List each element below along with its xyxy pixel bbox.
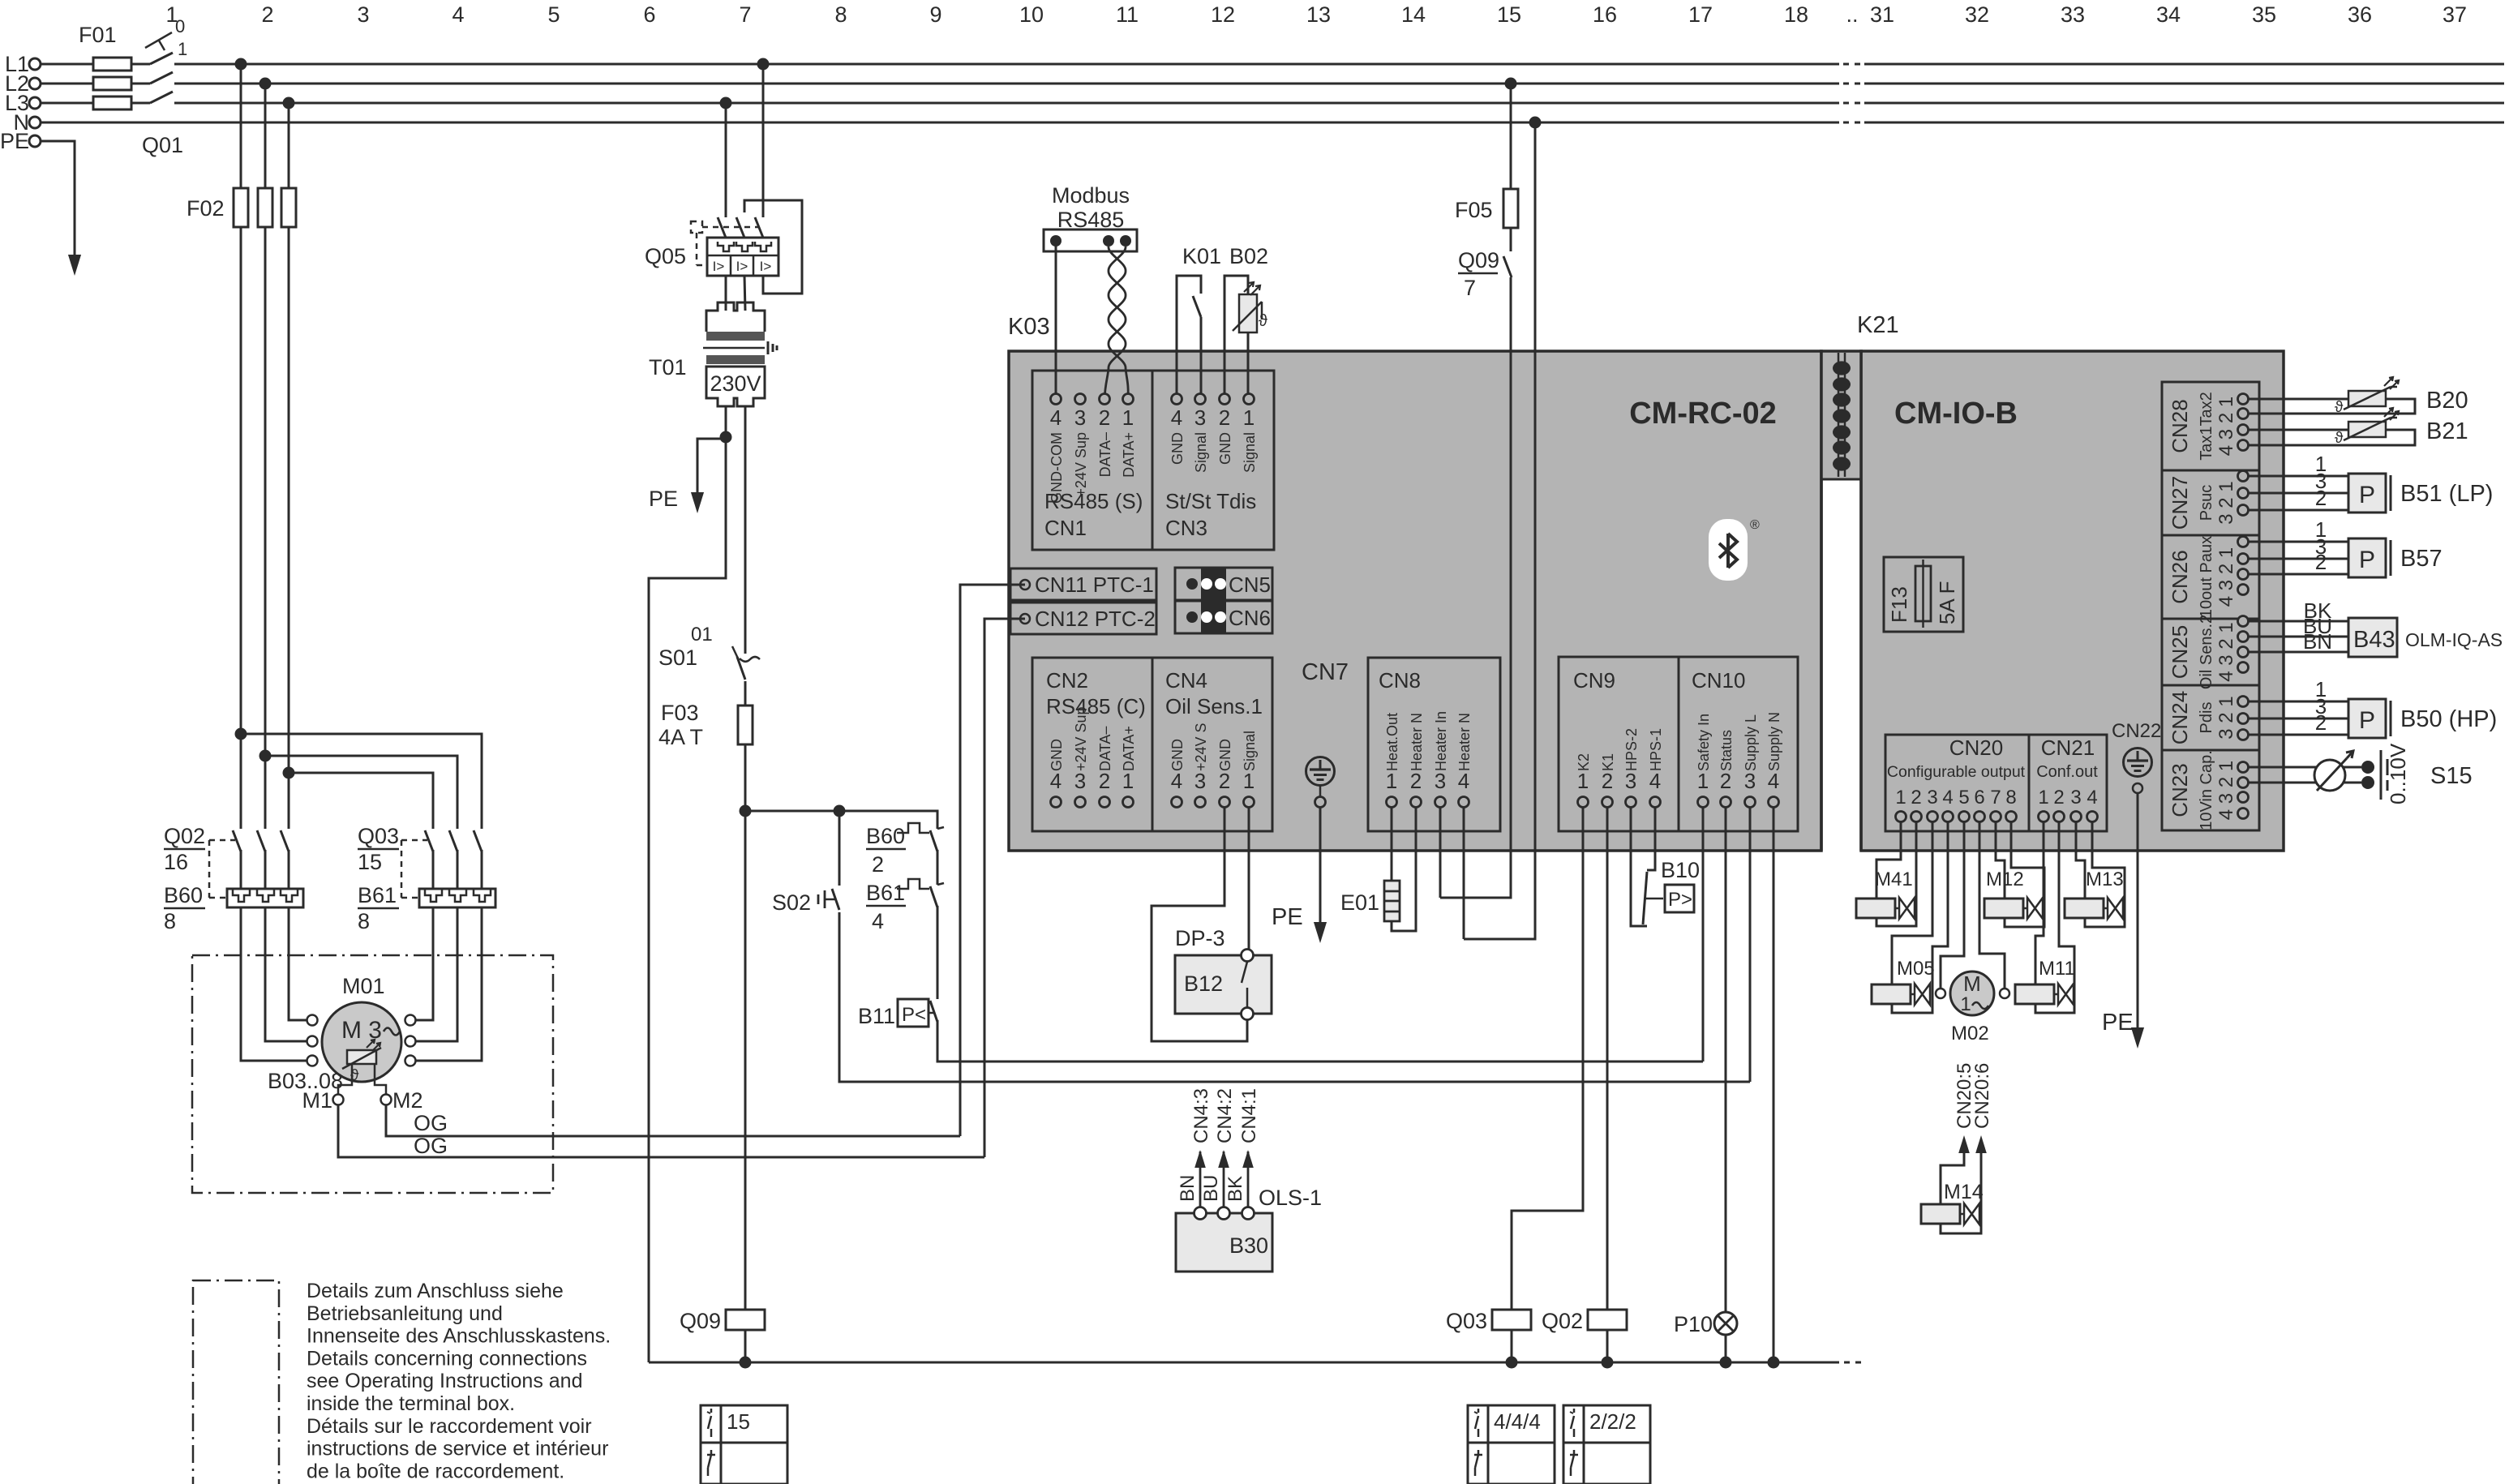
svg-text:Psuc: Psuc <box>2198 485 2215 521</box>
svg-text:3: 3 <box>2070 787 2081 808</box>
svg-text:CN28: CN28 <box>2168 399 2192 452</box>
svg-text:B51 (LP): B51 (LP) <box>2400 481 2493 507</box>
svg-text:CN4:3: CN4:3 <box>1190 1088 1212 1143</box>
svg-text:B30: B30 <box>1229 1233 1268 1258</box>
overload relay B60 body <box>227 889 303 907</box>
svg-text:7: 7 <box>739 2 751 27</box>
svg-text:St/St Tdis: St/St Tdis <box>1165 489 1256 513</box>
svg-text:ϑ: ϑ <box>1259 312 1267 330</box>
svg-text:F05: F05 <box>1455 198 1493 222</box>
breaker Q05 body <box>707 238 778 276</box>
svg-text:F02: F02 <box>187 196 225 221</box>
svg-text:M02: M02 <box>1951 1023 1989 1044</box>
junction L3 to F02 <box>283 97 295 109</box>
svg-text:Status: Status <box>1718 730 1735 771</box>
breaker Q05 I> cells <box>730 255 732 276</box>
connector CN27 box <box>2162 470 2259 472</box>
svg-text:Supply L: Supply L <box>1743 714 1759 771</box>
junction L3 to Q05 <box>720 97 732 109</box>
wire bottom supply rail <box>649 1362 1839 1364</box>
svg-text:2: 2 <box>261 2 273 27</box>
wire PE branch from secondary <box>697 439 726 496</box>
svg-text:K2: K2 <box>1576 753 1592 771</box>
svg-text:M41: M41 <box>1875 869 1913 890</box>
svg-text:P>: P> <box>1668 889 1692 911</box>
connector CN1 pin 3 +24V Sup <box>1075 394 1086 405</box>
svg-text:CN4:2: CN4:2 <box>1214 1088 1236 1143</box>
svg-text:Innenseite des Anschlusskasten: Innenseite des Anschlusskastens. <box>307 1325 611 1348</box>
lamp P10 symbol <box>1714 1312 1737 1335</box>
contact B61-4 NC contact <box>897 879 929 889</box>
sensor B57 pressure transmitter <box>2249 541 2348 543</box>
svg-text:1: 1 <box>2038 787 2048 808</box>
svg-text:Q01: Q01 <box>142 133 183 157</box>
svg-text:S15: S15 <box>2430 763 2473 789</box>
junction L2-branch to Q03 <box>259 750 272 762</box>
svg-text:4: 4 <box>1649 769 1661 793</box>
svg-text:Détails sur le raccordement vo: Détails sur le raccordement voir <box>307 1415 592 1438</box>
wire Modbus GND to CN1:4 <box>1055 241 1057 399</box>
wire T01 secondary right leg down to S01 <box>744 406 747 654</box>
connector CN26 pin 3 <box>2238 569 2249 580</box>
svg-text:OG: OG <box>414 1134 448 1158</box>
sensor B43 OLM-IQ-AS wires <box>2249 620 2348 623</box>
pressure switch B11 contact <box>929 1012 933 1014</box>
svg-text:B20: B20 <box>2426 388 2468 414</box>
svg-text:6: 6 <box>643 2 655 27</box>
svg-text:4: 4 <box>2087 787 2097 808</box>
coil Q09 body <box>726 1310 765 1330</box>
svg-text:P<: P< <box>902 1004 926 1026</box>
connector CN10 pin 1 Safety In <box>1698 797 1709 808</box>
sensor B43 box <box>2348 618 2397 657</box>
svg-text:5: 5 <box>547 2 560 27</box>
connector CN27 pin 2 <box>2238 488 2249 499</box>
connector CN4 pin 4 GND <box>1172 797 1182 808</box>
svg-text:2: 2 <box>1602 769 1613 793</box>
svg-text:Signal: Signal <box>1242 432 1258 473</box>
valve M14 loop wires <box>1941 1152 1964 1204</box>
svg-text:Q02: Q02 <box>164 824 205 848</box>
svg-text:7: 7 <box>1990 787 2001 808</box>
connector CN9 pin 2 K1 <box>1602 797 1613 808</box>
svg-text:5A F: 5A F <box>1935 581 1959 624</box>
svg-text:RS485 (C): RS485 (C) <box>1046 694 1146 718</box>
switch S02 symbol <box>838 811 841 886</box>
svg-text:CN4:1: CN4:1 <box>1238 1088 1260 1143</box>
connector CN10 pin 4 Supply N <box>1769 797 1779 808</box>
wire B60-2 to B61-4 <box>937 850 939 885</box>
svg-text:T01: T01 <box>649 355 687 380</box>
connector CN4 pin 2 GND <box>1220 797 1230 808</box>
svg-text:3: 3 <box>1194 769 1206 793</box>
wire S02 to Supply L rail <box>839 912 1750 1082</box>
compressor boundary dash-dot box <box>192 955 553 1193</box>
svg-text:HPS-1: HPS-1 <box>1648 728 1664 771</box>
svg-text:2: 2 <box>2315 710 2327 735</box>
connector CN4 pin 3 +24V S <box>1195 797 1206 808</box>
wire Q02 pole outputs to motor <box>288 850 290 889</box>
valve M05 symbol <box>1872 984 1911 1004</box>
setpoint S15 terminals <box>2361 761 2374 774</box>
junction Supply N rail <box>1768 1357 1780 1369</box>
connector CN8 pin 4 Heater N <box>1459 797 1469 808</box>
wire E01 to CN8:2 <box>1392 807 1416 931</box>
wire F03 to junction <box>744 744 747 1362</box>
svg-text:RS485 (S): RS485 (S) <box>1044 489 1143 513</box>
svg-text:2: 2 <box>1720 769 1731 793</box>
svg-text:Heater In: Heater In <box>1433 711 1449 771</box>
svg-text:1: 1 <box>1243 405 1254 430</box>
svg-text:2: 2 <box>1219 769 1230 793</box>
svg-text:4 3 2 1: 4 3 2 1 <box>2215 761 2237 820</box>
svg-text:8: 8 <box>164 909 176 933</box>
module K21 bridge area <box>1823 351 1860 479</box>
fuse F01 pole 1 <box>93 58 131 71</box>
svg-text:4: 4 <box>1942 787 1953 808</box>
junction L1 to Q05 <box>757 58 770 71</box>
wire L1 rail <box>41 63 1839 66</box>
svg-text:1: 1 <box>1577 769 1589 793</box>
svg-text:4 3 2 1: 4 3 2 1 <box>2215 547 2237 607</box>
junction secondary to PE <box>720 431 732 444</box>
svg-text:1: 1 <box>1960 993 1971 1015</box>
svg-text:BN: BN <box>1177 1175 1199 1202</box>
svg-text:4: 4 <box>1768 769 1779 793</box>
breaker Q05 blade pole 2 <box>736 217 744 238</box>
pressure switch B10 contact <box>1643 872 1647 924</box>
svg-text:PE: PE <box>649 487 678 511</box>
wire CN8:3 stub <box>1439 807 1442 898</box>
svg-text:M05: M05 <box>1897 958 1935 980</box>
svg-text:Tax1Tax2: Tax1Tax2 <box>2198 392 2215 461</box>
svg-text:CN26: CN26 <box>2168 550 2192 603</box>
svg-text:Signal: Signal <box>1193 432 1209 473</box>
svg-text:Signal: Signal <box>1242 731 1258 771</box>
connector CN23 pin 2 <box>2238 778 2249 788</box>
svg-text:M01: M01 <box>342 974 385 998</box>
svg-text:CN27: CN27 <box>2168 476 2192 530</box>
svg-text:K1: K1 <box>1600 753 1616 771</box>
svg-text:2: 2 <box>1099 405 1110 430</box>
wire CN10:2 Status to P10 <box>1725 807 1727 1313</box>
connector CN28 pin 4 <box>2238 440 2249 451</box>
connector CN25 pin 4 <box>2238 663 2249 673</box>
setpoint S15 potentiometer symbol <box>2314 760 2345 791</box>
svg-text:35: 35 <box>2252 2 2276 27</box>
svg-text:1: 1 <box>1697 769 1709 793</box>
wire S01 to F03 <box>744 681 747 706</box>
motor M01 body <box>322 1002 401 1082</box>
valve M41 symbol <box>1856 899 1895 918</box>
svg-text:CN23: CN23 <box>2168 763 2192 817</box>
motor M01 terminals <box>307 1015 318 1026</box>
wire CN9:4 HPS-1 to B10 <box>1647 807 1655 870</box>
svg-text:CN5: CN5 <box>1229 573 1271 597</box>
sensor B20 wires <box>2249 398 2348 401</box>
connector CN9 pin 1 K2 <box>1578 797 1589 808</box>
svg-text:P: P <box>2359 482 2375 508</box>
connector CN8 pin 1 Heat.Out <box>1387 797 1397 808</box>
svg-text:6: 6 <box>1974 787 1984 808</box>
connector CN24 box <box>2162 684 2259 687</box>
breaker Q05 thermal element pole 3 <box>755 242 771 251</box>
fuse F01 pole 3 <box>93 97 131 109</box>
connector Modbus pin DATA+ <box>1120 235 1131 247</box>
svg-text:230V: 230V <box>710 371 761 396</box>
svg-text:CM-RC-02: CM-RC-02 <box>1629 397 1777 431</box>
connector CN28 pin 1 <box>2238 394 2249 405</box>
svg-text:4 3 2 1: 4 3 2 1 <box>2215 397 2237 456</box>
sensor B51 (LP) pressure transmitter <box>2249 475 2348 478</box>
svg-text:F13: F13 <box>1887 586 1911 623</box>
motor M02 wires <box>1941 821 1964 988</box>
connector CN23 pin 1 <box>2238 762 2249 773</box>
wire Q05 pole2 to T01 <box>744 276 745 311</box>
svg-text:B57: B57 <box>2400 546 2443 572</box>
svg-text:7: 7 <box>1464 276 1476 300</box>
svg-text:+24V S: +24V S <box>1193 723 1209 771</box>
wire CN10:1 Safety In stub <box>1702 807 1705 1062</box>
svg-text:I>: I> <box>736 259 748 274</box>
svg-text:B60: B60 <box>164 883 203 907</box>
wire T01 secondary left leg <box>649 406 726 1362</box>
switch B12 oil differential pressure switch <box>1175 955 1272 1014</box>
wire OG1 from M2 to CN11 <box>386 1104 960 1136</box>
valve M11 loop wires <box>2035 821 2044 984</box>
connector CN24 pin 1 <box>2238 697 2249 707</box>
connector CN26 pin 2 <box>2238 554 2249 564</box>
sensor B20 thermistor <box>2348 391 2386 406</box>
svg-text:B60: B60 <box>866 824 905 848</box>
wire L3 down to Q02 contact <box>288 103 290 829</box>
connector CN9 pin 3 HPS-2 <box>1626 797 1636 808</box>
connector K21 ribbon <box>1838 353 1840 477</box>
svg-text:B12: B12 <box>1184 971 1223 996</box>
wire branch to B60-2 contact <box>839 811 937 829</box>
wire branch to Q03 pole 2 <box>265 756 457 829</box>
svg-text:inside the terminal box.: inside the terminal box. <box>307 1392 515 1415</box>
wire L2 rail <box>41 83 1839 85</box>
sensor B30 body <box>1176 1213 1272 1272</box>
svg-text:E01: E01 <box>1340 890 1379 915</box>
wire CN4:1 to B12 top <box>1248 807 1250 950</box>
connector CN8 pin 3 Heater In <box>1435 797 1446 808</box>
wire Q03 pole outputs to motor <box>432 850 435 889</box>
svg-text:B50 (HP): B50 (HP) <box>2400 706 2497 732</box>
svg-text:4 3 2 1: 4 3 2 1 <box>2215 622 2237 681</box>
svg-text:P10: P10 <box>1674 1312 1713 1336</box>
switch S01 blade <box>744 637 747 654</box>
svg-text:GND: GND <box>1049 739 1065 771</box>
valve M14 symbol <box>1921 1204 1960 1224</box>
svg-text:10out Paux: 10out Paux <box>2198 536 2215 618</box>
svg-text:DP-3: DP-3 <box>1175 926 1225 950</box>
connector CN12 PTC-2 box <box>1010 603 1156 634</box>
svg-text:F03: F03 <box>661 701 699 725</box>
junction S02 branch <box>834 805 846 817</box>
svg-text:de la boîte de raccordement.: de la boîte de raccordement. <box>307 1460 564 1482</box>
connector CN3 pin 4 GND <box>1172 394 1182 405</box>
svg-text:CN4: CN4 <box>1165 668 1207 693</box>
svg-text:I>: I> <box>760 259 772 274</box>
svg-text:PE: PE <box>1272 904 1303 930</box>
svg-text:CN11 PTC-1: CN11 PTC-1 <box>1035 573 1154 597</box>
svg-text:+24V Sup: +24V Sup <box>1073 432 1089 497</box>
sensor B50 (HP) pressure transmitter <box>2249 701 2348 703</box>
wire P10 to rail <box>1725 1335 1727 1362</box>
svg-text:10Vin Cap.: 10Vin Cap. <box>2198 750 2215 830</box>
svg-text:CM-IO-B: CM-IO-B <box>1894 397 2018 431</box>
wire branch to Q03 pole 3 <box>241 734 482 829</box>
svg-text:BU: BU <box>1200 1175 1222 1202</box>
connector CN9/CN10 outer box <box>1559 657 1798 831</box>
junction N to CN8 <box>1529 117 1542 129</box>
svg-text:B11: B11 <box>858 1004 895 1028</box>
junction L2 to F02 <box>259 78 272 90</box>
svg-text:M: M <box>1963 971 1981 996</box>
svg-text:1: 1 <box>1895 787 1906 808</box>
setpoint S15 wires <box>2249 766 2361 769</box>
fuse F02 pole 2 <box>258 188 272 227</box>
connector CN23 box <box>2162 749 2259 752</box>
svg-text:B02: B02 <box>1229 244 1268 268</box>
svg-text:..: .. <box>1846 2 1858 27</box>
svg-text:11: 11 <box>1116 2 1139 27</box>
svg-text:2: 2 <box>2315 486 2327 510</box>
valve M12 symbol <box>1984 899 2023 918</box>
svg-text:0: 0 <box>175 16 185 36</box>
breaker Q05 blade pole 1 <box>718 217 726 238</box>
svg-text:K03: K03 <box>1008 314 1050 340</box>
connector CN22 earth symbol <box>2124 748 2152 777</box>
wire N rail <box>41 122 1839 124</box>
svg-text:4A T: 4A T <box>658 725 703 749</box>
connector CN3 pin 3 Signal <box>1195 394 1206 405</box>
wire L2 to F05 <box>1510 84 1512 189</box>
switch Q01 blade on L3 <box>150 102 174 105</box>
svg-text:9: 9 <box>929 2 941 27</box>
svg-text:CN2: CN2 <box>1046 668 1088 693</box>
svg-text:4: 4 <box>872 909 884 933</box>
svg-text:CN9: CN9 <box>1573 668 1615 693</box>
svg-text:DATA–: DATA– <box>1097 432 1113 477</box>
svg-text:15: 15 <box>727 1409 750 1434</box>
svg-text:Q09: Q09 <box>680 1309 721 1333</box>
connector CN25 pin 1 <box>2238 616 2249 627</box>
wire L1 down to Q02 contact <box>240 64 242 829</box>
connector CN1 pin 1 DATA+ <box>1123 394 1134 405</box>
svg-text:F01: F01 <box>79 23 117 47</box>
wire B11 to Safety In rail <box>937 1020 1703 1062</box>
svg-text:PE: PE <box>0 129 29 153</box>
reference table Q02 contacts <box>1563 1405 1650 1484</box>
svg-text:Pdis: Pdis <box>2198 702 2215 734</box>
svg-text:Heater N: Heater N <box>1456 713 1473 771</box>
connector CN26 pin 4 <box>2238 585 2249 595</box>
svg-text:ϑ: ϑ <box>2335 430 2344 447</box>
connector CN25 pin 2 <box>2238 632 2249 642</box>
svg-text:15: 15 <box>1497 2 1521 27</box>
pressure switch B11 P< box <box>898 999 929 1027</box>
svg-text:DATA–: DATA– <box>1097 727 1113 771</box>
svg-text:2: 2 <box>1410 769 1422 793</box>
valve M05 loop wires <box>1892 821 1932 984</box>
wire CN9:2 K1 to Q02 coil <box>1606 807 1609 1310</box>
svg-text:1: 1 <box>1386 769 1397 793</box>
connector CN27 pin 3 <box>2238 505 2249 516</box>
svg-text:see Operating Instructions and: see Operating Instructions and <box>307 1370 582 1392</box>
wire Q02 coil to rail <box>1606 1330 1609 1362</box>
coil Q03 body <box>1492 1310 1531 1330</box>
valve M12 loop wires <box>1996 821 2005 899</box>
svg-text:18: 18 <box>1784 2 1808 27</box>
connector CN26 box <box>2162 534 2259 537</box>
svg-text:3: 3 <box>1074 769 1086 793</box>
svg-text:M 3: M 3 <box>341 1017 382 1044</box>
junction L2 to F05 <box>1505 78 1517 90</box>
connector CN1 pin 4 GND-COM <box>1051 394 1061 405</box>
svg-text:Safety In: Safety In <box>1696 714 1712 771</box>
svg-text:S02: S02 <box>772 890 811 915</box>
svg-text:CN12 PTC-2: CN12 PTC-2 <box>1035 607 1156 631</box>
svg-text:Betriebsanleitung und: Betriebsanleitung und <box>307 1302 503 1325</box>
junction Q09 rail <box>740 1357 752 1369</box>
svg-text:M11: M11 <box>2039 958 2075 980</box>
junction control feed <box>740 805 752 817</box>
wire Modbus twisted pair to CN1 <box>1104 247 1126 399</box>
wire CN10:3 Supply L stub <box>1749 807 1752 1082</box>
svg-text:OLM-IQ-AS: OLM-IQ-AS <box>2405 629 2503 650</box>
svg-text:Conf.out: Conf.out <box>2036 763 2098 781</box>
svg-text:B21: B21 <box>2426 418 2468 444</box>
svg-text:14: 14 <box>1401 2 1426 27</box>
connector CN25 pin 3 <box>2238 647 2249 658</box>
svg-text:M1: M1 <box>302 1088 332 1113</box>
fuse F01 pole 2 <box>93 77 131 90</box>
svg-text:32: 32 <box>1965 2 1989 27</box>
connector CN8 box <box>1368 658 1500 831</box>
connector CN23 pin 4 <box>2238 808 2249 819</box>
connector CN24 pin 2 <box>2238 714 2249 724</box>
sensor B21 thermistor <box>2348 422 2386 437</box>
svg-text:CN7: CN7 <box>1302 659 1349 685</box>
switch Q01 blade on L1 <box>150 63 174 66</box>
junction L3-branch to Q03 <box>283 767 295 779</box>
connector CN24 pin 3 <box>2238 730 2249 740</box>
svg-text:CN25: CN25 <box>2168 625 2192 679</box>
setpoint S15 0..10V symbol <box>2380 750 2382 800</box>
svg-text:2: 2 <box>2315 550 2327 574</box>
fuse F13 box <box>1884 557 1963 632</box>
svg-text:OG: OG <box>414 1111 448 1135</box>
svg-text:8: 8 <box>358 909 370 933</box>
connector CN8 pin 2 Heater N <box>1411 797 1422 808</box>
svg-text:33: 33 <box>2061 2 2085 27</box>
wire L3 to Q05 pole 1 <box>725 103 727 217</box>
fuse F13 symbol <box>1915 566 1931 621</box>
svg-text:M2: M2 <box>392 1088 423 1113</box>
transformer T01 core with screen <box>703 347 765 350</box>
connector CN28 pin 2 <box>2238 409 2249 419</box>
fuse F02 pole 3 <box>281 188 296 227</box>
svg-text:ϑ: ϑ <box>2335 399 2344 416</box>
svg-text:0..10V: 0..10V <box>2386 743 2410 804</box>
connector CN7 earth symbol <box>1306 757 1335 786</box>
svg-text:2: 2 <box>872 852 884 877</box>
svg-text:3: 3 <box>1625 769 1636 793</box>
svg-text:CN1: CN1 <box>1044 516 1087 540</box>
